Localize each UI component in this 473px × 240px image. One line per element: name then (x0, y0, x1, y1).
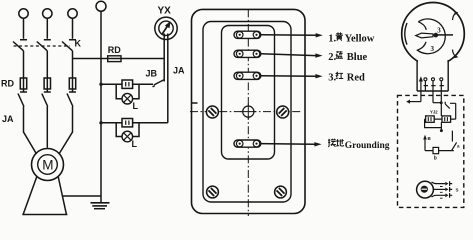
terminal box outer (192, 9, 306, 213)
switch K blade 2 (37, 42, 48, 51)
svg-text:YX: YX (158, 6, 172, 17)
plug wire 2 (424, 78, 427, 81)
control tap wire (73, 58, 165, 60)
leader wire 2 (261, 54, 316, 56)
node arrow (423, 135, 427, 140)
svg-text:L: L (132, 139, 138, 149)
centerline horizontal (190, 111, 301, 113)
left rim arc (405, 23, 407, 45)
svg-text:3: 3 (431, 45, 435, 53)
contact JB blade (153, 80, 165, 87)
screw left (206, 106, 218, 118)
wire to motor 3 (59, 107, 73, 155)
coil box row1 (122, 80, 133, 88)
terminal box mid (203, 22, 291, 203)
wire under fuse1 (20, 91, 27, 93)
svg-text:S: S (456, 188, 459, 193)
ground (91, 202, 110, 204)
switch K blade 3 (62, 42, 73, 51)
svg-text:RD: RD (1, 78, 14, 88)
motor M (32, 149, 64, 181)
svg-text:B: B (428, 136, 432, 141)
svg-text:K: K (75, 39, 82, 49)
wire phase1 (23, 51, 25, 92)
coil right (442, 116, 451, 122)
terminal strip 2 (234, 50, 261, 57)
gauge wire left (163, 34, 165, 82)
svg-text:2.: 2. (328, 52, 336, 63)
neutral wire (100, 11, 102, 202)
gauge needle (416, 33, 433, 38)
svg-text:JA: JA (2, 114, 14, 124)
label grounding (328, 139, 336, 147)
resistor (425, 150, 454, 152)
rotation arrow bottom (453, 50, 457, 58)
wire phase3 (72, 51, 74, 92)
switch K linkage (14, 45, 71, 47)
plug wire 4 (440, 78, 443, 81)
svg-text:1.: 1. (328, 33, 336, 44)
terminal strip 1 (234, 31, 261, 38)
centerline vertical (247, 9, 249, 216)
svg-text:YJ2: YJ2 (430, 110, 438, 115)
socket wire 1 (432, 182, 446, 184)
fuse RD3 (69, 78, 75, 89)
wire under fuse3 (69, 91, 76, 93)
branch row2 wire (101, 122, 168, 124)
frame ground wire (63, 195, 102, 197)
svg-text:a: a (457, 144, 460, 149)
fuse RD2 (44, 78, 50, 89)
pressure gauge body (402, 3, 465, 66)
screw bottom right (275, 186, 287, 198)
svg-text:M: M (42, 157, 53, 172)
svg-text:Red: Red (347, 73, 365, 84)
socket wire 3 (432, 195, 446, 197)
terminal L2 (43, 9, 52, 18)
rotation arrow top (453, 13, 457, 21)
terminal strip 3 (234, 72, 261, 79)
terminal L3 (68, 9, 77, 18)
tiny wire marks (440, 187, 443, 199)
gauge neck (417, 60, 448, 91)
contact upper (445, 102, 456, 119)
svg-text:JA: JA (173, 66, 185, 76)
wire L3 drop (69, 18, 76, 40)
svg-text:3: 3 (437, 27, 441, 35)
switch K blade 1 (13, 42, 24, 51)
wire to motor 2 (46, 107, 48, 148)
neutral terminal (96, 1, 106, 11)
coil wiring (425, 119, 456, 130)
svg-text:JB: JB (146, 69, 158, 79)
coil left (426, 116, 435, 122)
terminal box inner (222, 26, 275, 160)
wire under fuse2 (44, 91, 51, 93)
contact lower (452, 131, 457, 151)
terminal L1 (19, 9, 28, 18)
contact JA blade 3 (67, 94, 73, 107)
dashed enclosure (398, 95, 464, 207)
arrow out left (410, 101, 421, 103)
lamp L row1 (122, 93, 133, 104)
screw bottom left (207, 186, 219, 198)
wire phase2 (46, 51, 48, 92)
terminal strip 4 ground (234, 140, 261, 147)
svg-text:RD: RD (108, 45, 121, 55)
coil box row2 (122, 119, 133, 127)
fuse RD control (108, 56, 121, 62)
svg-text:Grounding: Grounding (345, 141, 390, 151)
wire L1 drop (20, 18, 27, 40)
plug socket (417, 181, 434, 198)
screw right (277, 106, 289, 118)
wire L2 drop (44, 18, 51, 40)
lamp L row2 (122, 131, 133, 142)
svg-text:3.: 3. (328, 73, 336, 84)
center mark (243, 106, 254, 117)
leader wire 1 (261, 34, 316, 37)
gauge dial (417, 19, 445, 54)
gauge wire right (167, 34, 169, 123)
lamp row1 bracket (116, 84, 139, 98)
motor mount triangle (22, 177, 67, 215)
contact JA blade 2 (42, 94, 48, 107)
leader wire 3 (261, 75, 316, 77)
plug wire 3 (432, 78, 435, 81)
contact JA blade 1 (18, 94, 24, 107)
svg-text:L: L (133, 101, 139, 111)
svg-text:b: b (434, 156, 437, 162)
cable stub into box (192, 102, 198, 104)
socket wire 2 (433, 188, 445, 190)
pressure gauge YX (155, 17, 177, 39)
svg-text:Yellow: Yellow (345, 33, 375, 44)
lamp row2 bracket (116, 123, 139, 137)
plug wire 1 (420, 81, 422, 102)
branch row1 wire (101, 83, 153, 85)
fuse RD1 (20, 78, 26, 89)
wire to motor 1 (24, 107, 37, 155)
leader wire 4 (261, 143, 315, 146)
wire jog (433, 102, 441, 104)
svg-text:Blue: Blue (347, 52, 368, 63)
